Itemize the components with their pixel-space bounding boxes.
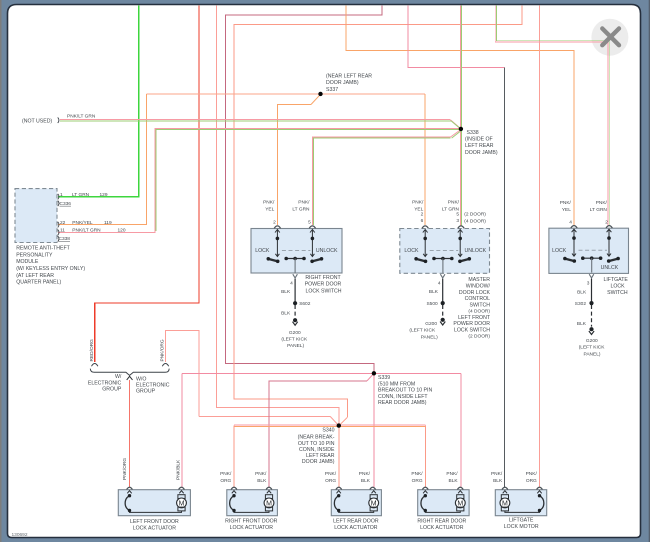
svg-text:UNLOCK: UNLOCK	[316, 248, 338, 254]
svg-text:BLK: BLK	[429, 289, 439, 295]
svg-text:M: M	[502, 500, 508, 507]
svg-text:RED/ORG: RED/ORG	[89, 339, 95, 362]
svg-text:PNK/: PNK/	[255, 471, 267, 477]
svg-text:BREAKOUT TO 10 PIN: BREAKOUT TO 10 PIN	[378, 388, 432, 394]
svg-text:22: 22	[60, 220, 66, 226]
svg-text:DOOR JAMB): DOOR JAMB)	[326, 80, 359, 86]
svg-text:RIGHT FRONT: RIGHT FRONT	[305, 275, 341, 281]
svg-text:LOCK ACTUATOR: LOCK ACTUATOR	[334, 525, 378, 531]
svg-text:UNLCK: UNLCK	[601, 265, 619, 271]
svg-text:PNK/: PNK/	[560, 200, 572, 206]
svg-text:BLK: BLK	[493, 478, 503, 484]
svg-text:LOCK: LOCK	[404, 248, 419, 254]
svg-text:BLK: BLK	[361, 478, 371, 484]
svg-text:UNLOCK: UNLOCK	[465, 248, 487, 254]
svg-text:LOCK: LOCK	[255, 248, 270, 254]
svg-text:BLK: BLK	[577, 289, 587, 295]
svg-text:BLK: BLK	[281, 289, 291, 295]
svg-text:4: 4	[569, 220, 572, 226]
svg-text:(2 DOOR): (2 DOOR)	[468, 334, 490, 340]
svg-text:DOOR LOCK: DOOR LOCK	[459, 290, 491, 296]
svg-text:PNK/: PNK/	[263, 200, 275, 206]
svg-text:(510 MM FROM: (510 MM FROM	[378, 381, 415, 387]
svg-text:ORG: ORG	[325, 478, 336, 484]
svg-text:CONN, INSIDE: CONN, INSIDE	[299, 447, 335, 453]
svg-text:(W/ KEYLESS ENTRY ONLY): (W/ KEYLESS ENTRY ONLY)	[16, 266, 85, 272]
svg-text:3: 3	[456, 218, 459, 224]
svg-text:DOOR JAMB): DOOR JAMB)	[465, 150, 498, 156]
svg-text:G200: G200	[425, 321, 437, 327]
svg-text:(AT LEFT REAR: (AT LEFT REAR	[16, 273, 54, 279]
svg-text:5: 5	[308, 220, 311, 226]
svg-text:3: 3	[587, 281, 590, 287]
svg-text:130692: 130692	[12, 532, 28, 538]
svg-text:PNK/: PNK/	[448, 200, 460, 206]
svg-text:4: 4	[438, 280, 441, 286]
svg-text:M: M	[266, 500, 272, 507]
svg-text:BLK: BLK	[257, 478, 267, 484]
svg-text:G200: G200	[289, 330, 301, 336]
svg-text:W/: W/	[115, 374, 122, 380]
svg-text:(4 DOOR): (4 DOOR)	[468, 309, 490, 315]
svg-text:RIGHT REAR DOOR: RIGHT REAR DOOR	[417, 518, 466, 524]
svg-text:MASTER: MASTER	[468, 277, 490, 283]
svg-text:PNK/: PNK/	[411, 471, 423, 477]
svg-text:LT GRN: LT GRN	[292, 207, 310, 213]
svg-text:S602: S602	[299, 301, 311, 307]
svg-text:LEFT FRONT DOOR: LEFT FRONT DOOR	[130, 519, 179, 525]
svg-text:S500: S500	[426, 301, 438, 307]
svg-text:(LEFT KICK: (LEFT KICK	[409, 328, 436, 334]
svg-text:6: 6	[421, 218, 424, 224]
svg-text:CONN, INSIDE LEFT: CONN, INSIDE LEFT	[378, 394, 428, 400]
svg-text:(LEFT KICK: (LEFT KICK	[281, 337, 308, 343]
svg-text:WINDOW/: WINDOW/	[466, 284, 491, 290]
svg-text:LOCK MOTOR: LOCK MOTOR	[504, 524, 539, 530]
svg-text:PNK/: PNK/	[412, 200, 424, 206]
svg-text:ORG: ORG	[220, 478, 231, 484]
svg-text:S338: S338	[467, 130, 479, 136]
svg-text:C338: C338	[59, 236, 71, 242]
svg-text:LOCK ACTUATOR: LOCK ACTUATOR	[420, 525, 464, 531]
svg-text:PNK/: PNK/	[596, 200, 608, 206]
svg-text:BLK: BLK	[577, 321, 587, 327]
svg-text:(NOT USED): (NOT USED)	[22, 118, 52, 124]
svg-text:SWITCH: SWITCH	[607, 290, 628, 296]
svg-text:GROUP: GROUP	[136, 388, 156, 394]
svg-text:YEL: YEL	[562, 207, 571, 213]
svg-text:SWITCH: SWITCH	[470, 302, 491, 308]
svg-text:PNK/LT GRN: PNK/LT GRN	[72, 228, 101, 234]
svg-text:11: 11	[60, 228, 65, 234]
svg-text:DOOR JAMB): DOOR JAMB)	[302, 459, 335, 465]
svg-text:LT GRN: LT GRN	[590, 207, 608, 213]
svg-text:S340: S340	[322, 428, 334, 434]
svg-text:PNK/LT GRN: PNK/LT GRN	[67, 114, 96, 120]
svg-text:PNK/: PNK/	[491, 471, 503, 477]
svg-text:LT GRN: LT GRN	[72, 192, 90, 198]
svg-text:(INSIDE OF: (INSIDE OF	[465, 137, 493, 143]
svg-text:PNK/: PNK/	[325, 471, 337, 477]
svg-text:LOCK: LOCK	[610, 284, 625, 290]
svg-text:LOCK: LOCK	[552, 248, 567, 254]
svg-text:REMOTE ANTI-THEFT: REMOTE ANTI-THEFT	[16, 246, 70, 252]
svg-text:1: 1	[60, 192, 63, 198]
svg-text:LIFTGATE: LIFTGATE	[509, 518, 534, 524]
svg-text:LEFT FRONT: LEFT FRONT	[458, 315, 491, 321]
svg-text:LIFTGATE: LIFTGATE	[603, 277, 628, 283]
svg-text:2: 2	[605, 220, 608, 226]
svg-text:LEFT REAR DOOR: LEFT REAR DOOR	[333, 518, 379, 524]
svg-text:LOCK ACTUATOR: LOCK ACTUATOR	[230, 525, 274, 531]
svg-text:MODULE: MODULE	[16, 259, 39, 265]
svg-text:PNK/BLK: PNK/BLK	[175, 459, 181, 480]
svg-text:(4 DOOR): (4 DOOR)	[464, 218, 486, 224]
svg-text:(NEAR LEFT REAR: (NEAR LEFT REAR	[326, 73, 372, 79]
svg-text:PANEL): PANEL)	[287, 343, 304, 349]
svg-text:(NEAR BREAK-: (NEAR BREAK-	[298, 435, 335, 441]
svg-text:POWER DOOR: POWER DOOR	[305, 282, 342, 288]
svg-text:LOCK ACTUATOR: LOCK ACTUATOR	[133, 526, 177, 532]
svg-text:PNK/ORG: PNK/ORG	[122, 458, 128, 480]
svg-text:PNK/ORG: PNK/ORG	[160, 339, 166, 361]
svg-text:LOCK SWITCH: LOCK SWITCH	[305, 289, 341, 295]
svg-text:PNK/: PNK/	[446, 471, 458, 477]
svg-text:C336: C336	[60, 201, 72, 207]
svg-text:PNK/: PNK/	[526, 471, 538, 477]
svg-text:S339: S339	[378, 375, 390, 381]
svg-text:YEL: YEL	[265, 207, 274, 213]
svg-text:ORG: ORG	[526, 478, 537, 484]
svg-text:PNK/: PNK/	[359, 471, 371, 477]
svg-text:LOCK SWITCH: LOCK SWITCH	[454, 327, 490, 333]
svg-text:120: 120	[118, 228, 126, 234]
svg-text:PNK/: PNK/	[220, 471, 232, 477]
svg-text:G200: G200	[586, 338, 598, 344]
svg-text:POWER DOOR: POWER DOOR	[453, 321, 490, 327]
svg-text:119: 119	[104, 220, 112, 226]
svg-text:GROUP: GROUP	[102, 386, 122, 392]
svg-text:2: 2	[421, 212, 424, 218]
svg-text:4: 4	[290, 280, 293, 286]
svg-text:PERSONALITY: PERSONALITY	[16, 252, 53, 258]
svg-text:(2 DOOR): (2 DOOR)	[464, 212, 486, 218]
svg-text:PNK/YEL: PNK/YEL	[72, 220, 93, 226]
svg-text:5: 5	[456, 212, 459, 218]
svg-text:PANEL): PANEL)	[584, 352, 601, 358]
svg-text:M: M	[179, 500, 185, 507]
svg-text:RIGHT FRONT DOOR: RIGHT FRONT DOOR	[225, 518, 278, 524]
svg-text:2: 2	[273, 220, 276, 226]
svg-text:129: 129	[100, 192, 108, 198]
svg-text:BLK: BLK	[281, 311, 291, 317]
svg-text:(LEFT KICK: (LEFT KICK	[579, 345, 606, 351]
svg-text:BLK: BLK	[449, 478, 459, 484]
svg-text:S302: S302	[575, 301, 587, 307]
svg-text:REAR DOOR JAMB): REAR DOOR JAMB)	[378, 400, 427, 406]
svg-text:PNK/: PNK/	[298, 200, 310, 206]
svg-text:QUARTER PANEL): QUARTER PANEL)	[16, 280, 61, 286]
svg-text:ORG: ORG	[412, 478, 423, 484]
svg-text:PANEL): PANEL)	[421, 335, 438, 341]
svg-text:LEFT REAR: LEFT REAR	[465, 143, 494, 149]
svg-text:CONTROL: CONTROL	[465, 296, 490, 302]
svg-text:S337: S337	[326, 87, 338, 93]
